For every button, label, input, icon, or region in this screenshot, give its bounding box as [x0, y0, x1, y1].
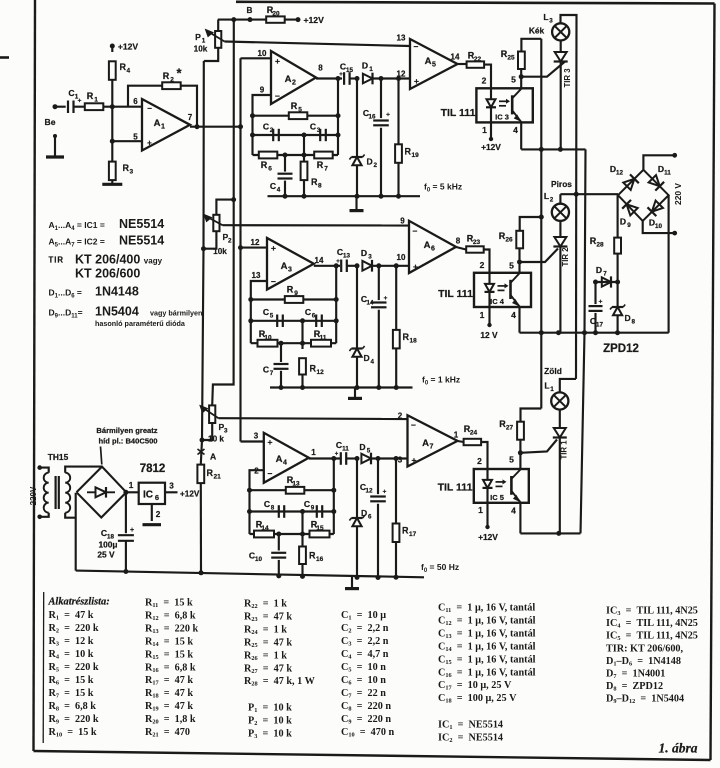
svg-text:D1–D6 = 1N4148: D1–D6 = 1N4148 [606, 656, 681, 668]
svg-text:R: R [291, 101, 298, 111]
junction signal bus A1 out [238, 124, 243, 129]
P2 bottom wire [204, 231, 217, 249]
pot P1 [217, 20, 219, 31]
bridge diode D12 [623, 179, 634, 190]
svg-text:−: − [275, 91, 280, 101]
svg-text:1: 1 [482, 125, 487, 135]
svg-text:+12V: +12V [180, 490, 200, 499]
svg-text:13: 13 [252, 271, 261, 280]
svg-text:C11 = 1 μ, 16 V, tantál: C11 = 1 μ, 16 V, tantál [438, 603, 535, 615]
optocoupler IC5 TIL111 [474, 469, 529, 503]
svg-text:8: 8 [456, 237, 461, 246]
wire R23 to IC4 pin2 [484, 250, 490, 273]
svg-text:4: 4 [511, 506, 516, 516]
svg-text:+12V: +12V [118, 42, 139, 52]
junction right R13 [331, 488, 336, 493]
svg-text:10: 10 [258, 49, 267, 58]
junction C2C3 mid [302, 133, 307, 138]
resistor R4 [109, 61, 116, 80]
svg-text:18: 18 [410, 338, 418, 345]
svg-text:5: 5 [509, 261, 514, 271]
junction C12 column [376, 456, 381, 461]
junction R21 rail [199, 570, 204, 575]
P3 wiper wire to A7 [219, 417, 408, 420]
svg-text:L: L [544, 381, 549, 391]
svg-text:3: 3 [169, 482, 174, 491]
svg-text:10: 10 [397, 253, 406, 262]
wire C11 to D5 [346, 457, 357, 459]
A4 right feedback column [333, 459, 335, 535]
svg-text:24: 24 [470, 430, 478, 437]
svg-text:R: R [405, 147, 412, 157]
wire C2C3 junction down [303, 135, 305, 162]
svg-text:TIR 2: TIR 2 [561, 247, 570, 267]
svg-text:C7 = 22 n: C7 = 22 n [341, 688, 386, 700]
svg-text:D: D [364, 353, 370, 363]
TIR2 cathode wire [559, 247, 561, 333]
junction R19 column [396, 76, 401, 81]
resistor R10 [258, 340, 278, 347]
R9 row wire [251, 298, 336, 300]
svg-text:+: + [414, 76, 419, 86]
wire L1 to TIR1 [559, 410, 561, 428]
lamp L2 [552, 204, 569, 221]
junction bus top [231, 17, 236, 22]
ground IC6 [143, 523, 162, 526]
svg-text:D: D [367, 157, 373, 167]
svg-text:−: − [268, 469, 273, 479]
P1 bottom wire [204, 48, 218, 61]
junction C12 rail [376, 575, 381, 580]
svg-text:15: 15 [346, 67, 354, 74]
wire A2 +input [241, 57, 272, 59]
wire R24 to IC5 pin2 [481, 442, 487, 469]
junction pin5 R27 [518, 450, 523, 455]
svg-text:7: 7 [270, 370, 274, 377]
svg-text:2: 2 [482, 76, 487, 86]
junction R16 rail [300, 574, 305, 579]
svg-text:3: 3 [224, 428, 228, 435]
C2 C3 row wire [253, 134, 339, 136]
svg-text:R: R [123, 163, 130, 173]
wire D5 to A7 [372, 457, 408, 459]
svg-text:1: 1 [161, 124, 165, 131]
capacitor C9 [316, 505, 318, 518]
resistor R17 column [395, 459, 397, 524]
junction right C9 [331, 509, 336, 514]
P2 top stub [216, 200, 233, 215]
op-amp A7 [408, 415, 458, 466]
rail channel 1 [521, 148, 585, 150]
junction bus rail2 [539, 330, 544, 335]
svg-text:C: C [68, 88, 74, 98]
junction right R9 [334, 297, 339, 302]
svg-text:R17 = 47 k: R17 = 47 k [145, 675, 193, 687]
wire A4 -input feedback column [250, 470, 264, 534]
svg-text:D: D [620, 217, 626, 227]
junction P2 feed [231, 197, 236, 202]
svg-text:2: 2 [480, 260, 485, 270]
wire A3 -input feedback column [251, 281, 267, 343]
svg-text:14: 14 [315, 256, 324, 265]
wire C15 to D1 [350, 77, 359, 79]
bridge diode D9 [627, 204, 638, 215]
svg-text:hasonló paraméterű dióda: hasonló paraméterű dióda [95, 319, 186, 328]
lamp L1 [551, 392, 568, 409]
svg-text:R3 = 12 k: R3 = 12 k [49, 636, 94, 648]
svg-text:3: 3 [549, 18, 553, 25]
IC5 pin5 wire [519, 453, 521, 469]
thyristor TIR2 [554, 237, 566, 247]
svg-text:14: 14 [366, 300, 374, 307]
svg-text:+: + [383, 489, 387, 496]
svg-text:8: 8 [271, 505, 275, 512]
junction R17 rail [394, 575, 399, 580]
svg-text:D: D [362, 61, 368, 71]
IC3 pin5 wire [520, 77, 522, 89]
IC4 pin5 wire [518, 262, 520, 273]
svg-text:+: + [271, 243, 276, 253]
svg-text:B: B [247, 6, 253, 15]
svg-text:8: 8 [318, 64, 323, 73]
svg-text:12 V: 12 V [480, 330, 498, 340]
svg-text:+: + [275, 56, 280, 66]
svg-text:14: 14 [261, 525, 269, 532]
svg-text:13: 13 [292, 481, 300, 488]
lamp L2 feed [559, 194, 561, 204]
zener D4 column [356, 266, 358, 349]
Piros wire [560, 193, 618, 195]
svg-text:R18 = 47 k: R18 = 47 k [145, 688, 193, 700]
ground symbol channel 1 [355, 196, 357, 210]
svg-text:8: 8 [632, 319, 636, 326]
junction fb C2 [250, 133, 255, 138]
feedback wire pin6 to R2 [128, 86, 162, 107]
svg-text:Be: Be [45, 117, 56, 127]
svg-text:Bármilyen greatz: Bármilyen greatz [96, 426, 157, 435]
svg-text:16: 16 [316, 556, 324, 563]
wire D3 to A6 [373, 265, 409, 267]
junction R26 bus [539, 215, 544, 220]
junction C17 top [593, 280, 598, 285]
svg-text:7: 7 [603, 271, 607, 278]
bridge bottom output wire [643, 221, 675, 233]
svg-text:+: + [335, 452, 339, 458]
IC6 output wire [165, 491, 178, 493]
resistor R5 [289, 112, 308, 119]
capacitor C2 [272, 129, 274, 141]
svg-text:+12V: +12V [304, 15, 325, 25]
svg-text:25: 25 [507, 55, 515, 62]
junction D4 column [355, 263, 360, 268]
junction C17 rail [593, 330, 598, 335]
svg-text:−: − [147, 104, 152, 113]
ground symbol bottom rail [351, 577, 353, 589]
junction C14 column [376, 263, 381, 268]
svg-text:IC1 = NE5514: IC1 = NE5514 [438, 719, 503, 731]
op-amp A6 [409, 221, 456, 273]
wiper feed bus [212, 20, 234, 406]
transformer primary winding [40, 468, 49, 473]
svg-text:+: + [78, 98, 82, 105]
junction Piros chain [574, 192, 579, 197]
junction C18 [123, 490, 128, 495]
pot bottom bus wire [201, 61, 204, 464]
wire R21 to rail [200, 483, 202, 573]
wire A2 -input feedback column [253, 95, 272, 155]
bridge diode D11 [649, 175, 660, 186]
svg-text:C6 = 10 n: C6 = 10 n [341, 675, 386, 687]
svg-text:C3 = 2,2 n: C3 = 2,2 n [341, 636, 389, 648]
A1 output wire to bus [190, 126, 240, 128]
junction right R5 [336, 113, 341, 118]
A2 output wire [316, 77, 342, 79]
R14 R15 row wire [250, 533, 334, 535]
svg-text:220 V: 220 V [673, 183, 683, 205]
margin tick [0, 56, 9, 59]
svg-text:R4 = 10 k: R4 = 10 k [49, 649, 94, 661]
capacitor C6 [315, 315, 317, 328]
svg-text:4: 4 [511, 310, 516, 320]
svg-text:R21 = 470: R21 = 470 [145, 727, 190, 739]
svg-text:TIL 111: TIL 111 [438, 482, 473, 494]
svg-text:R: R [163, 71, 170, 81]
C8 C9 row wire [250, 510, 334, 512]
P3 wiper arrow [203, 408, 219, 419]
svg-text:C: C [263, 365, 269, 375]
svg-text:R27 = 47 k: R27 = 47 k [244, 663, 292, 675]
svg-text:19: 19 [412, 152, 420, 159]
svg-text:+: + [384, 295, 388, 302]
optocoupler IC4 TIL111 [474, 273, 531, 307]
resistor R18 column [395, 266, 397, 330]
wire L3 to TIR3 [560, 41, 562, 53]
svg-text:A5...A7 = IC2 = NE5514: A5...A7 = IC2 = NE5514 [49, 234, 165, 249]
svg-text:−: − [411, 420, 416, 430]
resistor R20 [266, 16, 285, 22]
+12V rail terminal [296, 17, 301, 22]
gate wire TIR1 [520, 440, 557, 453]
svg-text:2: 2 [292, 80, 296, 87]
power bridge right output [126, 491, 138, 493]
capacitor C3 [319, 129, 321, 141]
resistor R6 [259, 152, 278, 159]
wire L2 to TIR2 [559, 221, 561, 237]
junction C16 column [379, 76, 384, 81]
lamp L3 loop top [561, 15, 577, 194]
thyristor TIR3 [555, 52, 567, 62]
svg-text:11: 11 [320, 335, 327, 342]
A5 output wire [458, 63, 467, 65]
mains bridge diamond [618, 170, 669, 221]
wire R1 to node [103, 106, 112, 108]
svg-text:9: 9 [627, 222, 631, 229]
figure border left [34, 0, 36, 751]
resistor R22 [467, 61, 485, 67]
thyristor TIR1 [554, 428, 566, 438]
supply bus vertical [540, 39, 542, 409]
junction D6 column [355, 456, 360, 461]
wire R28 to D7 node [617, 254, 619, 282]
svg-text:9: 9 [400, 217, 405, 226]
node A1 pin6 [110, 104, 115, 109]
svg-text:11: 11 [342, 446, 349, 453]
TIR1 cathode wire [559, 438, 561, 534]
svg-text:IC 3: IC 3 [495, 113, 509, 122]
svg-text:+: + [130, 527, 134, 534]
svg-text:5: 5 [511, 75, 516, 85]
diode D1 [363, 74, 373, 84]
junction C18 rail [123, 569, 128, 574]
capacitor C5 [276, 315, 278, 328]
svg-text:+: + [339, 72, 343, 78]
rail channel 2 [520, 332, 669, 334]
svg-text:4: 4 [277, 187, 281, 194]
capacitor C15 [343, 72, 345, 85]
svg-text:P: P [195, 32, 201, 42]
svg-text:IC 4: IC 4 [490, 297, 505, 306]
svg-text:4: 4 [283, 460, 287, 467]
pot P2 [213, 215, 219, 231]
resistor R19 column [397, 79, 399, 145]
capacitor C7 to rail [280, 343, 282, 362]
svg-text:IC2 = NE5514: IC2 = NE5514 [438, 732, 503, 744]
secondary bottom wire [65, 513, 76, 518]
junction TIR3 rail [558, 147, 563, 152]
pointer line to bridge [101, 447, 102, 465]
svg-text:C4 = 4,7 n: C4 = 4,7 n [341, 649, 389, 661]
svg-text:6: 6 [368, 514, 372, 521]
svg-text:2: 2 [374, 162, 378, 169]
svg-text:3: 3 [398, 456, 403, 465]
svg-text:1: 1 [550, 386, 554, 393]
svg-text:+: + [599, 299, 603, 306]
wire R2 to output [181, 86, 197, 127]
svg-text:D: D [596, 265, 602, 275]
svg-text:10: 10 [655, 223, 663, 230]
junction D6 rail [355, 575, 360, 580]
svg-text:14: 14 [451, 53, 460, 62]
zener D2 column [356, 79, 358, 158]
node A marker [198, 449, 205, 455]
svg-text:A: A [425, 56, 432, 67]
IC4 pin1 to 12V [488, 307, 490, 325]
svg-text:KT 206/600: KT 206/600 [75, 267, 140, 281]
IC3 pin1 to +12V [490, 122, 492, 139]
regulator IC6 7812 [139, 483, 165, 504]
svg-text:3: 3 [368, 254, 372, 261]
svg-text:R23 = 47 k: R23 = 47 k [244, 611, 292, 623]
svg-text:TIR: KT 206/600,: TIR: KT 206/600, [606, 643, 684, 654]
resistor R28 [614, 238, 621, 254]
junction row C10 [276, 532, 281, 537]
svg-text:2: 2 [477, 456, 482, 466]
power bridge diode symbol [87, 491, 96, 493]
gate wire TIR2 [520, 249, 559, 263]
junction C8C9 mid [300, 509, 305, 514]
capacitor C13 [340, 260, 342, 273]
junction x-bus rail2 [582, 330, 587, 335]
svg-text:220V: 220V [29, 486, 38, 505]
IC5 pin4 wire [519, 503, 521, 534]
svg-text:D: D [361, 508, 367, 518]
svg-text:12: 12 [365, 488, 373, 495]
svg-text:1. ábra: 1. ábra [658, 741, 697, 756]
svg-text:R10 = 15 k: R10 = 15 k [49, 727, 97, 739]
parts list separator line [42, 592, 45, 743]
svg-text:28: 28 [596, 242, 604, 249]
svg-text:D: D [625, 313, 631, 323]
svg-text:C: C [305, 307, 311, 317]
svg-text:C: C [263, 307, 269, 317]
svg-text:R19 = 47 k: R19 = 47 k [145, 701, 193, 713]
wire A4 +input [241, 440, 264, 442]
lamp L3 [552, 23, 569, 40]
svg-text:C2 = 2,2 n: C2 = 2,2 n [341, 623, 389, 635]
svg-text:5: 5 [270, 313, 274, 320]
capacitor C11 [340, 452, 342, 465]
svg-text:4: 4 [513, 125, 518, 135]
junction signal bus A3 input [238, 245, 243, 250]
svg-text:16: 16 [368, 114, 376, 121]
svg-text:9: 9 [260, 86, 265, 95]
transformer primary terminal top [37, 465, 42, 470]
transformer core [54, 476, 56, 509]
svg-text:R: R [310, 364, 317, 374]
svg-text:R26 = 1 k: R26 = 1 k [244, 650, 287, 662]
svg-text:26: 26 [505, 237, 513, 244]
resistor R23 [466, 246, 484, 252]
svg-text:1: 1 [478, 505, 483, 515]
signal bus from A1 [239, 58, 241, 441]
svg-text:Zöld: Zöld [544, 366, 562, 376]
svg-text:100μ: 100μ [98, 540, 117, 550]
svg-text:A: A [276, 454, 283, 465]
svg-text:C14 = 1 μ, 16 V, tantál: C14 = 1 μ, 16 V, tantál [438, 641, 536, 653]
svg-text:12: 12 [251, 238, 260, 247]
svg-text:5: 5 [509, 455, 514, 465]
junction fb R9 [248, 297, 253, 302]
svg-text:R: R [311, 177, 318, 187]
svg-text:23: 23 [473, 239, 481, 246]
op-amp A2 [271, 51, 316, 104]
ground symbol channel 2 [354, 388, 356, 399]
svg-text:R11 = 15 k: R11 = 15 k [145, 598, 193, 610]
svg-text:3: 3 [254, 432, 259, 441]
resistor R12 [299, 358, 306, 374]
svg-text:C1 = 10 μ: C1 = 10 μ [341, 610, 386, 622]
svg-text:Kék: Kék [529, 26, 545, 36]
svg-text:10: 10 [264, 335, 272, 342]
svg-text:R14 = 15 k: R14 = 15 k [145, 636, 193, 648]
resistor R11 [311, 340, 331, 347]
svg-text:6: 6 [133, 97, 138, 106]
svg-text:+: + [268, 437, 273, 447]
svg-text:R: R [261, 160, 268, 170]
junction A1 output R2 [195, 124, 200, 129]
svg-text:R: R [87, 91, 94, 101]
svg-text:12: 12 [317, 369, 325, 376]
svg-text:2: 2 [156, 510, 161, 519]
resistor R2 [162, 82, 181, 89]
A3 output wire [314, 265, 340, 267]
svg-text:IC3 = TIL 111, 4N25: IC3 = TIL 111, 4N25 [606, 606, 698, 618]
svg-text:1: 1 [454, 431, 459, 440]
svg-text:A: A [281, 261, 288, 272]
junction row R8 [302, 153, 307, 158]
capacitor C8 [278, 505, 280, 518]
wire R4 to node [111, 80, 113, 107]
